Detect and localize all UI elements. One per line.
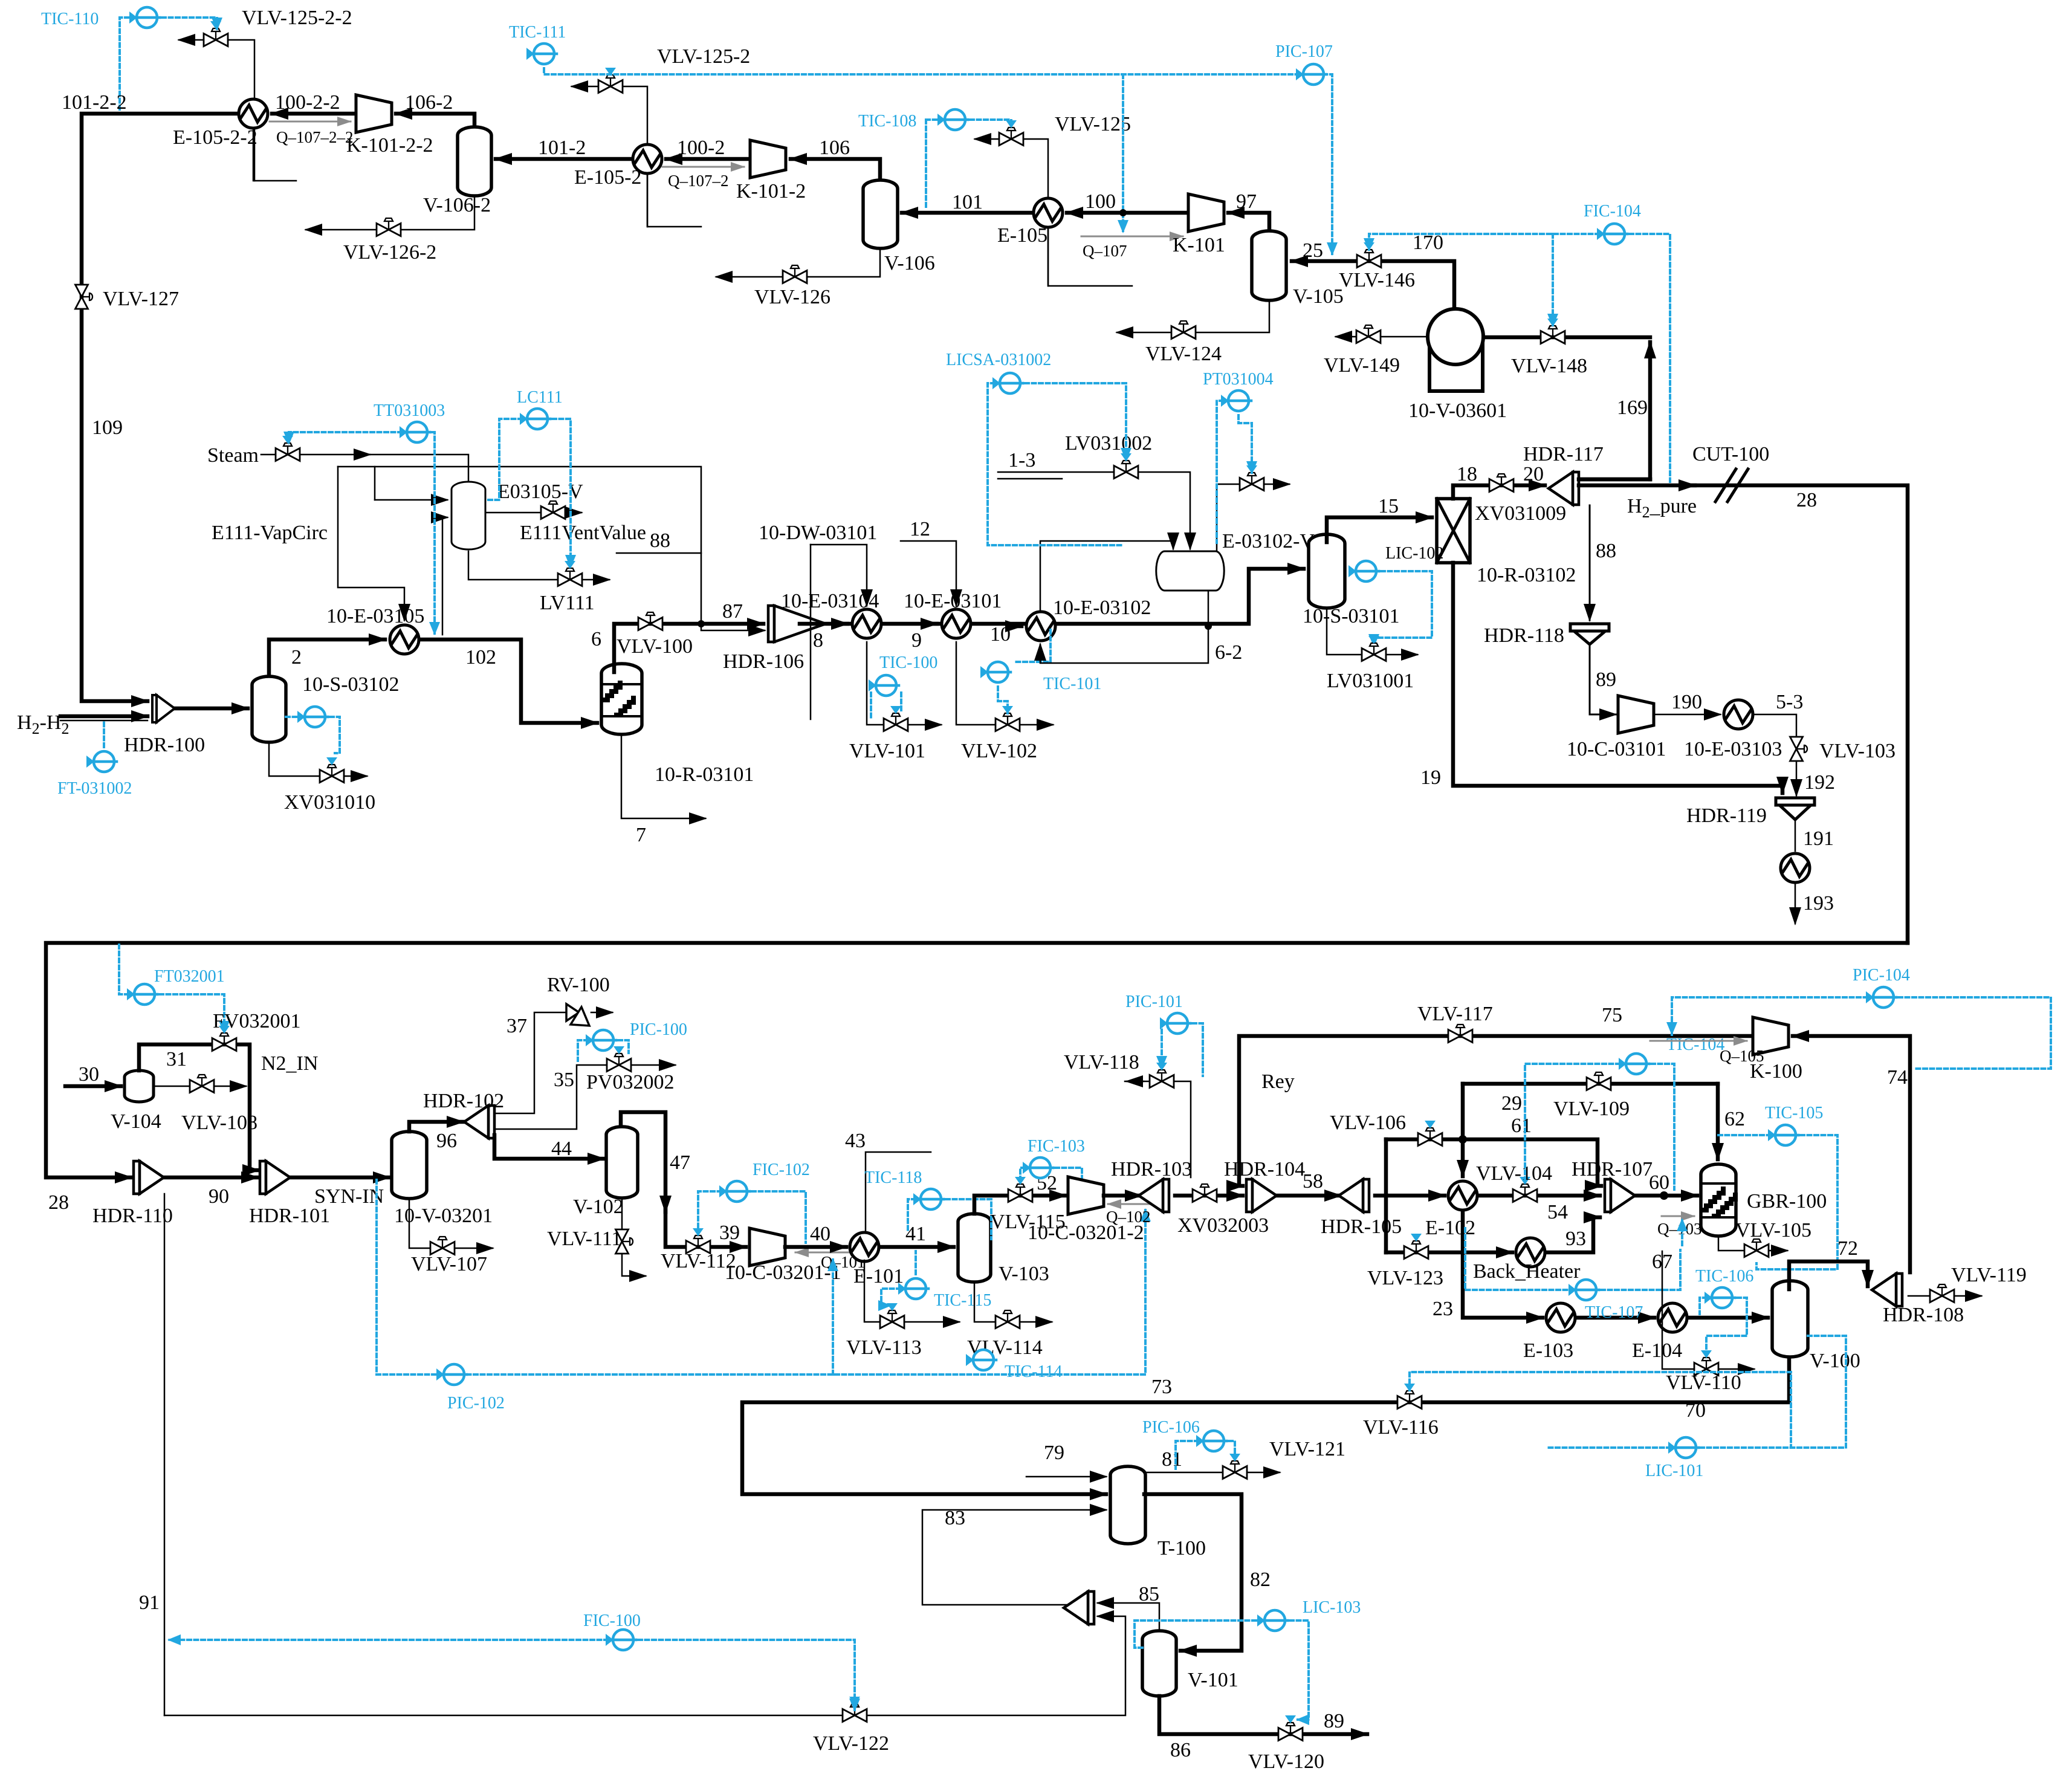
valve 18-20 valve (1489, 474, 1514, 492)
svg-text:10-V-03601: 10-V-03601 (1408, 400, 1507, 422)
svg-text:20: 20 (1523, 463, 1544, 485)
vessel 10-S-03102 (252, 676, 286, 742)
svg-text:40: 40 (810, 1223, 830, 1245)
valve VLV-126 (783, 265, 807, 283)
controller PIC-102 (436, 1364, 467, 1385)
svg-text:VLV-104: VLV-104 (1476, 1162, 1552, 1185)
wire 79 (1026, 1476, 1106, 1478)
exchanger E-105 (1034, 198, 1063, 227)
svg-text:6-2: 6-2 (1215, 641, 1242, 664)
wire 25 / 170 (1292, 261, 1454, 311)
compressor 10-C-03201-2 (1068, 1177, 1104, 1214)
svg-text:PV032002: PV032002 (586, 1071, 674, 1093)
svg-text:E-03102-V: E-03102-V (1222, 530, 1315, 552)
svg-text:54: 54 (1547, 1201, 1568, 1223)
valve E111 vent valve (541, 501, 565, 519)
wire into E03105-V lower (442, 517, 447, 635)
heat Q-107 (1081, 236, 1183, 238)
svg-text:10-E-03103: 10-E-03103 (1684, 738, 1782, 760)
controller PIC-106 (1196, 1431, 1226, 1451)
controller LC111 (520, 409, 550, 429)
valve PT031004 valve (1240, 473, 1264, 491)
wire VLV-113 drain (864, 1260, 959, 1322)
wire 23b (1576, 1316, 1654, 1320)
svg-text:28: 28 (1796, 489, 1817, 511)
svg-text:VLV-126: VLV-126 (754, 286, 830, 308)
wire 81 (1145, 1472, 1280, 1474)
svg-text:VLV-124: VLV-124 (1145, 343, 1222, 365)
exchanger 10-E-03102 (1026, 612, 1055, 641)
wire VLV-114 drain (974, 1283, 1052, 1322)
svg-text:73: 73 (1151, 1376, 1172, 1398)
wire 97 (1228, 213, 1269, 232)
wire 1-3 (998, 472, 1190, 549)
wire 40 (785, 1245, 846, 1249)
valve VLV-118 (1150, 1070, 1174, 1088)
svg-text:XV031010: XV031010 (284, 791, 375, 814)
valve PV032002 (607, 1054, 631, 1072)
exchanger HDR-119 cooler (1781, 853, 1810, 882)
wire LV031001 drain (1327, 608, 1417, 655)
wire to V-100 (1688, 1316, 1768, 1320)
svg-text:10: 10 (990, 623, 1011, 646)
wire to HDR-104 (1175, 1194, 1243, 1198)
controller LICSA-031002 (992, 373, 1023, 393)
wire 100-2 (666, 157, 750, 161)
wire 102 (421, 639, 597, 723)
wire 7 (621, 734, 705, 818)
svg-text:101: 101 (952, 191, 983, 213)
svg-text:10-C-03101: 10-C-03101 (1567, 738, 1666, 760)
wire LV111 line (468, 551, 609, 580)
exchanger 10-E-03101 (942, 609, 971, 638)
mixer HDR-102 (464, 1106, 494, 1138)
wire 10-DW-03101 lines (811, 545, 867, 606)
vessel 10-V-03201 (392, 1132, 427, 1199)
svg-text:VLV-101: VLV-101 (849, 740, 925, 762)
svg-text:T-100: T-100 (1157, 1537, 1206, 1559)
exchanger E-104 (1658, 1303, 1687, 1332)
svg-text:96: 96 (436, 1130, 457, 1152)
wire 8 9 10 row (800, 569, 1304, 624)
svg-text:VLV-111: VLV-111 (547, 1228, 621, 1250)
controller TIC-108 (937, 109, 968, 130)
controller FIC-100 (606, 1630, 636, 1650)
vessel V-106 (863, 180, 898, 248)
svg-text:HDR-100: HDR-100 (124, 734, 205, 756)
valve VLV-121 (1223, 1461, 1247, 1479)
valve VLV-113 (880, 1310, 904, 1329)
wire 58 (1278, 1194, 1341, 1198)
wire 62 (1716, 1084, 1720, 1159)
wire 12 lines (901, 541, 956, 606)
wire 52 (974, 1196, 1066, 1214)
controller TIC-115 (898, 1278, 928, 1299)
vessel V-102 (606, 1127, 638, 1198)
wire VLV-102 line (956, 642, 1053, 725)
svg-text:LV031002: LV031002 (1065, 432, 1152, 455)
wire 85 (1098, 1603, 1159, 1632)
svg-text:Q–107: Q–107 (1083, 242, 1127, 260)
valve LV031001 (1362, 643, 1386, 661)
svg-text:FIC-104: FIC-104 (1584, 202, 1641, 221)
svg-text:97: 97 (1236, 190, 1257, 213)
svg-text:PIC-107: PIC-107 (1275, 42, 1333, 61)
svg-text:47: 47 (670, 1151, 690, 1174)
wire Rey 75 (1239, 1036, 1769, 1186)
svg-text:LICSA-031002: LICSA-031002 (946, 351, 1051, 369)
svg-text:VLV-100: VLV-100 (617, 635, 693, 658)
wire 15 (1327, 517, 1432, 542)
svg-text:VLV-149: VLV-149 (1324, 354, 1400, 377)
svg-text:E-105-2: E-105-2 (574, 166, 641, 189)
svg-text:VLV-102: VLV-102 (961, 740, 1037, 762)
svg-text:100: 100 (1085, 190, 1116, 213)
svg-text:100-2: 100-2 (677, 137, 725, 159)
wire 190 (1654, 714, 1720, 716)
mixer HDR-104 (1246, 1179, 1277, 1212)
wire 72 (1789, 1261, 1868, 1289)
controller TIC-104 (1619, 1054, 1649, 1074)
svg-text:HDR-108: HDR-108 (1883, 1304, 1964, 1326)
controller LIC-101 (1668, 1437, 1698, 1458)
SEC3 lower-left (46, 943, 1908, 1715)
svg-text:V-106: V-106 (884, 252, 935, 274)
mixer HDR-101 (260, 1161, 290, 1194)
valve XV031010 (320, 765, 344, 783)
wire E-105-2 coolant stub (647, 175, 701, 227)
wire 100 (1067, 211, 1188, 215)
svg-text:HDR-103: HDR-103 (1111, 1158, 1192, 1180)
wire 28 return (46, 943, 1908, 1177)
compressor K-101-2-2 (356, 95, 392, 132)
mixer HDR-118 (1570, 624, 1609, 631)
wire VLV-125-2-2 vent (179, 40, 254, 181)
compressor K-100 (1753, 1017, 1789, 1055)
wire 23 (1463, 1211, 1543, 1318)
svg-text:TIC-100: TIC-100 (879, 653, 937, 672)
valve VLV-110 (1694, 1358, 1718, 1376)
svg-text:K-101: K-101 (1173, 234, 1225, 256)
svg-text:60: 60 (1649, 1171, 1669, 1194)
controller TIC-100 (869, 675, 899, 696)
svg-text:SYN-IN: SYN-IN (314, 1185, 384, 1208)
svg-text:HDR-107: HDR-107 (1572, 1158, 1653, 1180)
svg-text:HDR-104: HDR-104 (1224, 1158, 1305, 1180)
valve VLV-117 (1448, 1025, 1472, 1043)
svg-text:TIC-110: TIC-110 (41, 10, 99, 28)
svg-text:TIC-107: TIC-107 (1585, 1303, 1643, 1322)
svg-text:89: 89 (1596, 669, 1616, 691)
vessel V-101 (1142, 1631, 1176, 1696)
svg-text:39: 39 (719, 1222, 740, 1244)
vessel V-100 (1772, 1281, 1808, 1357)
svg-text:RV-100: RV-100 (547, 974, 610, 996)
svg-text:HDR-118: HDR-118 (1484, 624, 1564, 647)
svg-text:LV111: LV111 (540, 592, 595, 614)
svg-text:10-R-03101: 10-R-03101 (655, 763, 754, 786)
svg-text:7: 7 (636, 824, 646, 846)
svg-text:106-2: 106-2 (405, 91, 453, 114)
wire 96 (409, 1122, 463, 1132)
svg-text:FT-031002: FT-031002 (57, 779, 132, 798)
svg-text:37: 37 (507, 1015, 527, 1037)
controller PT031004 (1221, 390, 1251, 411)
svg-text:88: 88 (1596, 540, 1616, 562)
wire 5-3 192 (1754, 714, 1796, 795)
svg-text:91: 91 (139, 1591, 160, 1614)
node H2 tick (60, 720, 147, 722)
svg-text:18: 18 (1457, 463, 1477, 485)
wire HDR-105 manifold (1375, 1194, 1386, 1198)
cut CUT-100 (1686, 484, 1695, 488)
svg-text:10-E-03105: 10-E-03105 (326, 605, 424, 627)
svg-text:TIC-105: TIC-105 (1765, 1104, 1823, 1122)
svg-text:TIC-101: TIC-101 (1043, 675, 1101, 693)
wire VLV-124 drain (1117, 299, 1269, 332)
svg-text:8: 8 (813, 629, 823, 652)
valve VLV-116 (1397, 1391, 1422, 1409)
svg-text:VLV-148: VLV-148 (1511, 355, 1587, 377)
wire 47 / 39 (621, 1112, 746, 1247)
wire 2 (269, 639, 385, 676)
svg-text:Q–107–2: Q–107–2 (668, 172, 729, 190)
svg-text:V-104: V-104 (111, 1110, 161, 1133)
controller FT032001 (127, 984, 157, 1005)
svg-text:VLV-108: VLV-108 (181, 1112, 257, 1134)
svg-text:VLV-120: VLV-120 (1248, 1750, 1324, 1771)
wire VLV-126 drain (716, 247, 880, 277)
valve VLV-100 (638, 612, 662, 630)
wire PT vent (1217, 484, 1289, 551)
wire 18 20 (1453, 485, 1545, 499)
vessel 10-S-03101 (1309, 534, 1345, 608)
wire VLV-118 vent (1125, 1081, 1191, 1177)
svg-text:VLV-117: VLV-117 (1417, 1003, 1493, 1025)
svg-text:191: 191 (1803, 827, 1834, 850)
svg-text:Q–102: Q–102 (1106, 1208, 1151, 1226)
wire VLV-107 drain (409, 1199, 493, 1248)
mixer HDR-103 (1139, 1179, 1169, 1212)
wire VLV-123 branch (1386, 1251, 1512, 1255)
svg-text:190: 190 (1671, 691, 1702, 713)
valve VLV-103 (1790, 737, 1808, 761)
wire VLV-149 drain (1336, 336, 1428, 338)
wire dashed PIC-102 run (377, 1180, 1145, 1374)
svg-text:44: 44 (551, 1138, 572, 1160)
compressor K-101 (1188, 194, 1224, 231)
wire 88 right (1589, 505, 1591, 620)
exchanger 10-E-03103 (1724, 700, 1753, 729)
wire E-102 feed (1386, 1194, 1445, 1198)
svg-text:V-105: V-105 (1293, 285, 1344, 308)
svg-text:HDR-110: HDR-110 (92, 1205, 173, 1227)
wire 88 left (617, 553, 765, 630)
controller TIC-101 (980, 662, 1011, 682)
heat Q-101 (795, 1252, 851, 1254)
valve VLV-102 (996, 713, 1020, 731)
valve steam valve (276, 443, 300, 461)
valve VLV-122 (843, 1704, 867, 1722)
svg-text:10-S-03101: 10-S-03101 (1303, 605, 1400, 627)
svg-text:VLV-146: VLV-146 (1339, 269, 1415, 291)
svg-text:E-102: E-102 (1425, 1217, 1475, 1239)
reactor 10-R-03101 (601, 664, 642, 734)
svg-text:100-2-2: 100-2-2 (275, 91, 340, 114)
mixer HDR-109 (1064, 1591, 1094, 1624)
svg-text:TT031003: TT031003 (374, 401, 445, 420)
svg-text:Q–105: Q–105 (1720, 1047, 1764, 1065)
valve VLV-127 (76, 285, 93, 309)
svg-text:TIC-118: TIC-118 (864, 1168, 922, 1187)
wire 90 (165, 1176, 257, 1180)
svg-text:VLV-113: VLV-113 (846, 1336, 922, 1359)
controller TIC-118 (913, 1189, 944, 1209)
wire VLV-119 line (1908, 1295, 1981, 1297)
svg-text:Steam: Steam (207, 444, 259, 467)
wire VLV-126-2 drain (306, 195, 474, 230)
svg-text:VLV-127: VLV-127 (103, 288, 179, 310)
exchanger 10-E-03104 (852, 609, 881, 638)
svg-text:LV031001: LV031001 (1327, 670, 1414, 692)
drum E-03102-V (1156, 551, 1224, 591)
wire 41 (880, 1245, 954, 1249)
reactor GBR-100 (1701, 1164, 1736, 1236)
svg-text:GBR-100: GBR-100 (1747, 1190, 1827, 1213)
svg-text:N2_IN: N2_IN (261, 1052, 318, 1075)
svg-text:87: 87 (722, 600, 743, 623)
svg-text:V-102: V-102 (573, 1196, 624, 1218)
svg-text:CUT-100: CUT-100 (1692, 443, 1769, 465)
valve VLV-124 (1171, 321, 1196, 339)
svg-text:35: 35 (554, 1069, 574, 1091)
valve XV032003 (1193, 1184, 1217, 1202)
wire 106 (791, 159, 880, 181)
mixer HDR-110 (134, 1161, 164, 1194)
valve VLV-126-2 (377, 218, 401, 236)
wire VLV-148 line (1482, 335, 1650, 340)
wire XV031010 drain (269, 742, 367, 776)
svg-text:LC111: LC111 (517, 388, 563, 407)
svg-text:V-101: V-101 (1188, 1669, 1238, 1691)
valve VLV-115 (1008, 1184, 1032, 1202)
exchanger E-102 (1448, 1181, 1477, 1210)
svg-text:10-E-03104: 10-E-03104 (781, 590, 879, 612)
svg-text:74: 74 (1887, 1066, 1908, 1089)
valve VLV-123 (1404, 1241, 1428, 1259)
svg-text:VLV-107: VLV-107 (411, 1253, 487, 1275)
svg-text:70: 70 (1685, 1399, 1706, 1422)
svg-text:E-103: E-103 (1523, 1339, 1573, 1362)
wire 82 (1144, 1494, 1242, 1651)
svg-text:31: 31 (166, 1048, 187, 1070)
svg-text:82: 82 (1250, 1569, 1271, 1591)
svg-text:PIC-102: PIC-102 (447, 1394, 505, 1413)
heat Q-102 (1108, 1203, 1150, 1205)
controller LIC-102 (1348, 561, 1379, 581)
svg-text:15: 15 (1378, 495, 1399, 517)
wire 19 (1453, 563, 1782, 793)
svg-text:10-E-03102: 10-E-03102 (1053, 597, 1151, 619)
SEC2 reactor row (17, 351, 1908, 943)
wire 44 (494, 1135, 604, 1159)
controller TIC-114 (966, 1350, 996, 1370)
vessel V-105 (1252, 231, 1286, 300)
svg-text:PIC-106: PIC-106 (1142, 1418, 1200, 1437)
valve VLV-149 (1356, 325, 1381, 343)
svg-text:86: 86 (1170, 1739, 1191, 1761)
svg-text:XV032003: XV032003 (1177, 1214, 1269, 1237)
wire 193 (1795, 884, 1796, 924)
svg-text:10-DW-03101: 10-DW-03101 (759, 522, 877, 544)
controller FIC-102 (719, 1181, 749, 1202)
controller FIC-103 (1023, 1157, 1053, 1178)
svg-text:81: 81 (1162, 1448, 1182, 1471)
svg-text:TIC-104: TIC-104 (1666, 1035, 1724, 1054)
svg-text:10-S-03102: 10-S-03102 (302, 673, 400, 696)
svg-text:6: 6 (591, 628, 601, 650)
controller TIC-110 (129, 7, 160, 28)
svg-text:90: 90 (209, 1185, 229, 1208)
svg-text:67: 67 (1652, 1251, 1672, 1273)
svg-text:Q–107–2–2: Q–107–2–2 (276, 128, 354, 146)
mixer HDR-119 (1776, 798, 1815, 805)
svg-text:75: 75 (1602, 1004, 1622, 1026)
valve VLV-108 (190, 1075, 214, 1093)
svg-text:PIC-101: PIC-101 (1125, 992, 1183, 1011)
heat Q-107-2 (662, 166, 744, 168)
wire 37 (496, 1012, 566, 1113)
controller FIC-104 (1597, 224, 1627, 244)
svg-text:VLV-118: VLV-118 (1064, 1051, 1139, 1073)
svg-text:V-106-2: V-106-2 (423, 194, 491, 216)
valve VLV-109 (1587, 1072, 1611, 1090)
compressor 10-C-03201-1 (749, 1228, 785, 1266)
controller TIC-106 (1705, 1287, 1735, 1308)
svg-text:1-3: 1-3 (1008, 449, 1035, 471)
svg-text:101-2: 101-2 (538, 137, 586, 159)
svg-text:72: 72 (1837, 1237, 1858, 1260)
controller TIC-111 (526, 44, 557, 64)
wire 31 / N2_IN (139, 1044, 259, 1170)
wire 67 VLV-110 (1662, 1251, 1754, 1369)
vessel T-100 (1110, 1466, 1145, 1544)
wire VLV-111 drain (622, 1198, 646, 1276)
valve VLV-106 (1418, 1128, 1442, 1146)
mixer HDR-108 (1872, 1274, 1902, 1306)
wire H2-H2 feed (60, 714, 147, 719)
valve VLV-120 (1278, 1723, 1303, 1741)
svg-text:TIC-114: TIC-114 (1005, 1362, 1062, 1381)
wire H2_pure / 28 right (1579, 485, 1908, 943)
svg-text:106: 106 (819, 137, 850, 159)
wire VLV-122 line (164, 1616, 1125, 1715)
svg-text:K-101-2-2: K-101-2-2 (346, 134, 433, 157)
SEC1 top cascade (41, 7, 1670, 723)
node 61 junction (1458, 1135, 1467, 1144)
wire 93 (1546, 1217, 1600, 1252)
svg-text:E-101: E-101 (853, 1265, 904, 1287)
svg-text:Back_Heater: Back_Heater (1473, 1260, 1581, 1283)
vessel E03105-V (452, 482, 485, 549)
svg-text:VLV-119: VLV-119 (1951, 1264, 2027, 1286)
svg-text:FIC-103: FIC-103 (1028, 1137, 1085, 1156)
wire 29 (1463, 1082, 1718, 1086)
svg-text:23: 23 (1433, 1298, 1453, 1320)
controller PIC-100 (586, 1030, 616, 1051)
wire E111 vapcirc loop (338, 467, 404, 620)
tank 10-V-03601 (1429, 339, 1483, 391)
